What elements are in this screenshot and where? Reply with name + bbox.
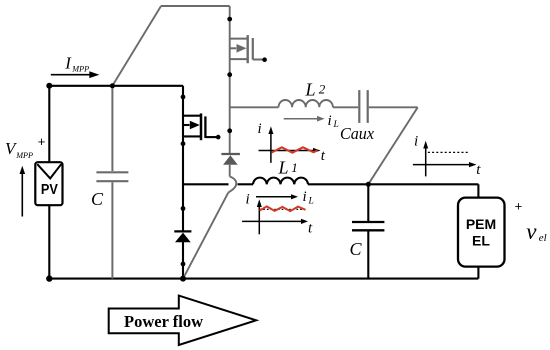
plot2 axis horizontal [242,219,308,224]
diode D1 [174,231,191,242]
transistor Q2 arrow [237,44,247,53]
svg-text:L: L [278,157,289,177]
gray wire hop over mid rail [228,177,236,193]
wire output cap branch bottom [367,231,369,278]
transistor Q1 main switch [183,113,217,140]
capacitor C input plates [96,172,128,181]
wire bottom rail [49,278,478,280]
svg-text:PEM: PEM [466,216,496,232]
wire PEM bottom [477,267,479,279]
wire to PEM top [477,184,479,197]
plot2 red waveform [260,206,306,211]
wire switching leg vertical [182,86,184,231]
plot1 red waveform [272,147,318,152]
wire diode leg lower [182,242,184,279]
label v_el [526,219,546,244]
gray wire Caux right [369,106,418,108]
svg-text:+: + [515,199,523,214]
gray wire below D2 [229,165,231,177]
svg-text:L: L [308,197,314,207]
label L2 [305,80,326,100]
svg-text:v: v [526,219,537,244]
svg-text:C: C [350,239,363,259]
PEM EL box [458,198,505,267]
gray wire diagonal right [368,107,417,184]
transistor Q2 gate dot [262,57,267,62]
svg-text:i: i [414,134,418,150]
svg-text:i: i [258,121,262,137]
svg-text:L: L [333,120,339,130]
plot2 axis vertical [257,199,262,234]
label I_MPP [64,54,89,74]
inductor L1 [253,178,308,185]
plot1 axis horizontal [259,148,321,153]
svg-text:i: i [303,189,307,205]
svg-text:MPP: MPP [71,65,89,74]
svg-text:el: el [539,232,547,244]
wire PV branch bottom [48,205,50,278]
svg-text:1: 1 [291,160,298,175]
wire mid rail to L1 [238,183,254,185]
arrow iL top [284,116,325,122]
wire top rail [49,85,183,87]
plot3 axis vertical [423,141,428,177]
svg-text:MPP: MPP [15,151,33,160]
svg-text:Power flow: Power flow [124,312,203,331]
svg-text:Caux: Caux [340,124,374,143]
svg-text:i: i [246,192,250,208]
transistor Q1 arrow [190,121,200,130]
capacitor C input branch top [111,86,113,171]
label iL top [328,113,339,130]
wire PV branch top [48,86,50,162]
arrow V_MPP [20,166,26,217]
gray wire top horizontal [161,5,230,7]
svg-text:L: L [305,80,316,100]
inductor L2 [279,100,333,107]
label V_MPP [5,139,33,160]
gray wire aux vertical [229,6,231,154]
gray wire diagonal top-left [112,6,161,86]
plot3 dotted current line [428,151,470,153]
PV source box [35,162,62,205]
power flow arrow [109,296,256,345]
capacitor Caux plates [359,90,367,123]
plot3 axis horizontal [413,162,477,167]
label L1 [278,157,298,177]
gray wire to L2 [230,106,279,108]
svg-text:PV: PV [41,181,58,198]
svg-text:C: C [91,189,104,209]
gray wire diagonal to bottom rail [184,193,228,277]
svg-text:+: + [38,134,46,149]
arrow iL mid [256,194,298,199]
arrow I_MPP [51,71,100,78]
wire output cap branch top [367,184,369,221]
diode D2 aux [221,154,240,165]
transistor Q2 aux switch [230,35,264,63]
plot2 dotted mean line [260,208,306,210]
svg-text:2: 2 [319,82,326,97]
wire mid rail left [183,183,229,185]
wire mid rail right [308,183,478,185]
label iL mid [303,189,314,206]
svg-text:EL: EL [472,232,490,248]
svg-text:i: i [328,113,332,129]
transistor Q1 gate dot [216,135,221,140]
capacitor C input branch bottom [111,182,113,278]
gray wire L2 to Caux [333,106,358,108]
plot1 axis vertical [268,126,273,163]
capacitor C output plates [352,222,384,230]
